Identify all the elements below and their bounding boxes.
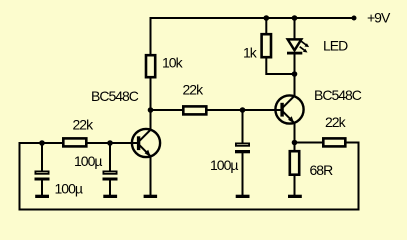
node: rail / R4	[264, 15, 270, 21]
node: C1 top	[39, 140, 45, 146]
node: rail / LED	[292, 15, 298, 21]
node: +9V terminal dot	[352, 16, 357, 21]
wire: R4 bottom elbow to LED cathode node	[266, 57, 295, 75]
svg-text:22k: 22k	[325, 114, 347, 130]
svg-text:22k: 22k	[73, 117, 95, 133]
svg-text:+9V: +9V	[367, 10, 391, 26]
svg-text:BC548C: BC548C	[314, 87, 362, 103]
resistor R4 1k	[262, 34, 271, 57]
resistor R3 22k (coupling to Q2 base)	[183, 106, 206, 114]
resistor R1 10k	[146, 55, 155, 77]
node: C2 top	[107, 140, 113, 146]
wire: rail down to R4	[265, 18, 267, 34]
LED D1	[287, 18, 309, 55]
svg-text:100µ: 100µ	[55, 181, 83, 197]
ground bar (R5)	[288, 195, 302, 198]
svg-text:22k: 22k	[183, 82, 205, 98]
wire: R5 bottom to ground	[294, 174, 296, 196]
wire: node A down to Q1 collector	[150, 110, 152, 130]
wire: node A to Q2 base	[151, 109, 283, 111]
node: emitter / R5 / R6	[292, 140, 298, 146]
transistor Q2 BC548C	[275, 95, 303, 123]
svg-text:LED: LED	[323, 38, 348, 54]
wire: bottom feedback rail	[19, 209, 360, 211]
resistor R6 22k (feedback)	[323, 138, 345, 146]
ground bar (Q1 emitter)	[144, 195, 158, 198]
wire: R1 bottom to node A	[150, 77, 152, 111]
resistor R2 22k (base feed)	[63, 138, 86, 146]
wire: Q2 emitter down to R5	[294, 123, 296, 152]
svg-text:68R: 68R	[310, 162, 334, 178]
node: C3 top	[240, 107, 246, 113]
svg-text:10k: 10k	[162, 54, 184, 70]
ground bar (C3)	[236, 195, 250, 198]
node A junction	[148, 107, 154, 113]
wire: LED cathode to Q2 collector	[294, 53, 296, 97]
capacitor C3 100µ	[235, 110, 250, 196]
wire: +9V top supply rail	[151, 17, 355, 19]
svg-text:1k: 1k	[243, 45, 258, 61]
ground bar (C2)	[103, 195, 117, 198]
capacitor C2 100µ	[103, 143, 118, 196]
wire: Q1 base wire	[20, 142, 139, 144]
node: LED / R4 junction	[292, 71, 298, 77]
transistor Q1 BC548C	[132, 129, 160, 157]
wire: Q1 emitter down to ground	[150, 156, 152, 196]
capacitor C1 100µ	[35, 143, 50, 196]
wire: left riser	[19, 142, 21, 210]
resistor R5 68R	[290, 151, 299, 175]
ground bar (C1)	[35, 195, 49, 198]
svg-text:BC548C: BC548C	[91, 88, 139, 104]
wire: emitter node to right riser	[295, 142, 359, 144]
svg-text:100µ: 100µ	[210, 157, 238, 173]
wire: top rail down to R1	[150, 17, 152, 55]
svg-text:100µ: 100µ	[74, 153, 102, 169]
wire: right riser	[358, 142, 360, 210]
